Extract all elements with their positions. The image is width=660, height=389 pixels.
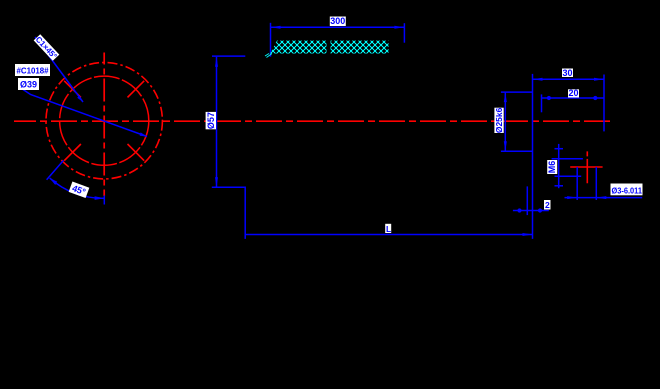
radial tick NW: [64, 81, 81, 98]
svg-text:300: 300: [330, 16, 345, 26]
journal dim bottom extension: [501, 150, 533, 152]
keyway detail top line: [552, 158, 583, 160]
leader A line: [35, 37, 83, 102]
left dim top arrow: [215, 57, 218, 67]
right journal dia dim: dim line: [504, 92, 506, 151]
label key note: [15, 64, 50, 76]
top dimension 300: dim line: [271, 26, 405, 28]
overall length dim line: [245, 234, 532, 236]
angular dim arrow 1: [50, 178, 58, 185]
leader B arrowhead: [140, 132, 147, 136]
svg-text:30: 30: [562, 68, 572, 78]
label diameter 39: [18, 78, 39, 90]
left diameter dim line: [216, 57, 218, 188]
dim 30 right arrow: [594, 78, 604, 81]
radial tick SW: [64, 144, 81, 161]
angular dim arrow 2: [95, 196, 105, 200]
small gap dim line: [513, 210, 549, 212]
left dim bottom arrow: [215, 177, 218, 187]
dim 20 dot right: [593, 96, 597, 100]
journal dim top extension: [501, 91, 533, 93]
label small gap: [544, 200, 551, 210]
overall length dim: left jog polyline: [212, 187, 245, 239]
dim 20 extension line: [541, 94, 543, 112]
radial tick NE: [128, 81, 145, 98]
keyway detail bottom line: [555, 175, 582, 177]
svg-text:20: 20: [568, 88, 578, 98]
right end face extension line (long): [532, 74, 534, 239]
angular dimension extension line: [47, 160, 64, 179]
left view vertical centerline: [103, 53, 105, 197]
label M6 (rotated): [547, 160, 557, 174]
leader A arrowhead: [77, 96, 83, 102]
angular dimension arc: [50, 178, 105, 198]
dim 30: dim line: [533, 78, 605, 80]
svg-text:#C1018#: #C1018#: [17, 66, 49, 75]
hole dim line: [565, 197, 643, 199]
outer circle (dash-dot): [46, 62, 162, 178]
middle circle: [60, 76, 149, 165]
svg-text:Ø3-6.011: Ø3-6.011: [612, 186, 643, 195]
svg-text:Ø57: Ø57: [206, 112, 216, 129]
label hole spec: [611, 184, 643, 196]
label journal dia (rotated): [494, 107, 504, 133]
svg-text:Ø39: Ø39: [20, 80, 37, 90]
small gap dim dot left: [517, 208, 521, 212]
label 45 degrees (rotated): [69, 182, 90, 198]
top dim right extension line: [403, 23, 405, 43]
knurl hatch band segment 2: [331, 41, 389, 54]
label left diameter (rotated): [206, 112, 216, 129]
keyway detail vertical line: [558, 144, 560, 188]
overall dim right arrow: [523, 233, 533, 236]
hatch corner tail: [265, 54, 272, 58]
leader B polyline: [20, 88, 147, 137]
keyway detail top tick: [555, 148, 564, 150]
left diameter dim: top extension line: [212, 55, 245, 57]
small gap dim dot right: [538, 208, 542, 212]
angular dimension extension line bottom: [103, 196, 105, 205]
dim 20: dim line: [542, 97, 605, 99]
label chamfer note (rotated): [33, 34, 59, 61]
label 30: [562, 69, 573, 78]
svg-text:2: 2: [545, 200, 550, 210]
svg-text:L: L: [386, 224, 391, 234]
radial tick SE: [128, 144, 145, 161]
svg-text:M6: M6: [547, 161, 557, 174]
overall dim tiny label: [385, 224, 391, 233]
hole dim arrow right (pointing left): [596, 196, 606, 199]
cross hole horizontal centerline: [570, 166, 602, 168]
journal dim bottom arrow: [504, 141, 507, 151]
hole dim extension line left: [576, 167, 578, 200]
main horizontal centerline: [14, 120, 612, 122]
top dim left arrow: [271, 26, 281, 29]
knurl hatch band segment 1: [270, 41, 327, 54]
small gap extension tick: [526, 186, 528, 215]
cross hole vertical centerline: [586, 151, 588, 183]
label 300: [330, 17, 346, 27]
svg-text:Ø25k6: Ø25k6: [494, 107, 504, 133]
label 20: [568, 89, 579, 97]
keyway detail bottom tick: [555, 185, 564, 187]
right extension line short: [603, 75, 605, 132]
top dim right arrow: [394, 26, 404, 29]
dim 30 left arrow: [533, 78, 543, 81]
top dim left extension line: [270, 23, 272, 57]
journal dim top arrow: [504, 92, 507, 102]
hole dim extension line right: [595, 167, 597, 200]
dim 20 dot left: [547, 96, 551, 100]
hole dim arrow left (pointing right): [567, 196, 577, 199]
